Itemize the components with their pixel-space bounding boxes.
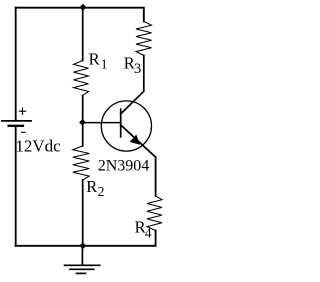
svg-text:12Vdc: 12Vdc xyxy=(15,137,61,156)
svg-text:R: R xyxy=(89,50,100,69)
svg-text:2: 2 xyxy=(98,184,105,199)
svg-text:3: 3 xyxy=(134,61,141,77)
svg-text:4: 4 xyxy=(145,226,152,241)
svg-text:2N3904: 2N3904 xyxy=(98,158,150,175)
svg-text:1: 1 xyxy=(101,57,108,72)
svg-text:R: R xyxy=(86,177,97,196)
